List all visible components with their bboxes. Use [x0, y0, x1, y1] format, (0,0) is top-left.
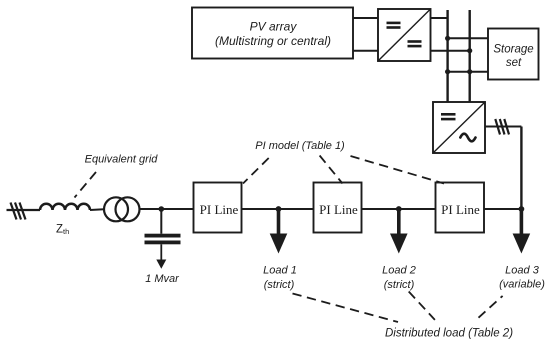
- PI Line box 1: [194, 183, 242, 233]
- DC bus left: [446, 10, 448, 103]
- svg-text:set: set: [506, 57, 522, 69]
- dashed pointer PI model to box3: [351, 156, 445, 184]
- PI Line box 3: [436, 183, 485, 233]
- wire PV to DC/DC bottom: [353, 50, 378, 52]
- wire inverter down to bus: [520, 127, 522, 210]
- DC bus right: [469, 10, 471, 103]
- load 2 arrow: [390, 209, 408, 254]
- node load2: [396, 206, 402, 212]
- svg-text:Zth: Zth: [56, 224, 69, 237]
- svg-text:1 Mvar: 1 Mvar: [145, 273, 180, 285]
- svg-text:(variable): (variable): [499, 279, 545, 291]
- Storage set box: [488, 29, 539, 80]
- svg-text:PI Line: PI Line: [319, 202, 358, 217]
- wire inverter output: [485, 126, 521, 128]
- dashed pointer PI model to box1: [243, 158, 269, 184]
- capacitor 1 Mvar: [145, 209, 181, 269]
- load 1 arrow: [270, 209, 288, 254]
- wire PI3 to load3 corner: [484, 208, 521, 210]
- inductor Zth: [40, 204, 90, 210]
- dashed pointer PI model to box2: [320, 156, 343, 184]
- svg-text:PI model (Table 1): PI model (Table 1): [255, 140, 345, 152]
- svg-text:(Multistring or central): (Multistring or central): [215, 34, 331, 48]
- svg-text:Load 2: Load 2: [382, 265, 416, 277]
- wire bus to storage top: [445, 36, 488, 41]
- grid source symbol: [7, 203, 41, 220]
- wire inductor to transformer: [90, 208, 104, 211]
- wire DC/DC out bottom: [431, 48, 473, 53]
- svg-text:Load 1: Load 1: [263, 265, 297, 277]
- node load1: [276, 206, 282, 212]
- svg-text:(strict): (strict): [264, 279, 295, 291]
- svg-text:Storage: Storage: [493, 44, 533, 56]
- DC/DC converter U1: [378, 9, 431, 61]
- svg-text:Load 3: Load 3: [505, 265, 540, 277]
- wire DC/DC out top: [431, 17, 448, 19]
- dashed pointer load2 to distributed: [409, 292, 435, 320]
- transformer T1: [104, 197, 140, 221]
- svg-text:PV array: PV array: [250, 20, 298, 34]
- svg-text:Distributed load (Table 2): Distributed load (Table 2): [385, 328, 513, 340]
- wire PV to DC/DC top: [353, 17, 378, 19]
- wire PI2 to PI3: [362, 208, 436, 210]
- svg-text:Equivalent grid: Equivalent grid: [85, 153, 159, 165]
- three-phase slashes at inverter output: [495, 119, 509, 135]
- svg-text:PI Line: PI Line: [200, 202, 239, 217]
- PV array box: [192, 8, 353, 59]
- wire bus to storage bottom: [445, 69, 488, 74]
- dashed pointer load1 to distributed: [293, 294, 399, 323]
- PI Line box 2: [314, 183, 362, 233]
- node capacitor junction: [159, 206, 165, 212]
- load 3 arrow: [513, 209, 531, 254]
- svg-text:PI Line: PI Line: [441, 202, 480, 217]
- dashed pointer to equivalent grid: [75, 172, 97, 198]
- wire transformer to PI line 1: [140, 208, 194, 210]
- inverter U2: [433, 102, 485, 153]
- dashed pointer distributed to load3: [479, 296, 503, 318]
- wire PI1 to PI2: [242, 208, 314, 210]
- node load3: [519, 206, 525, 212]
- svg-text:(strict): (strict): [384, 279, 415, 291]
